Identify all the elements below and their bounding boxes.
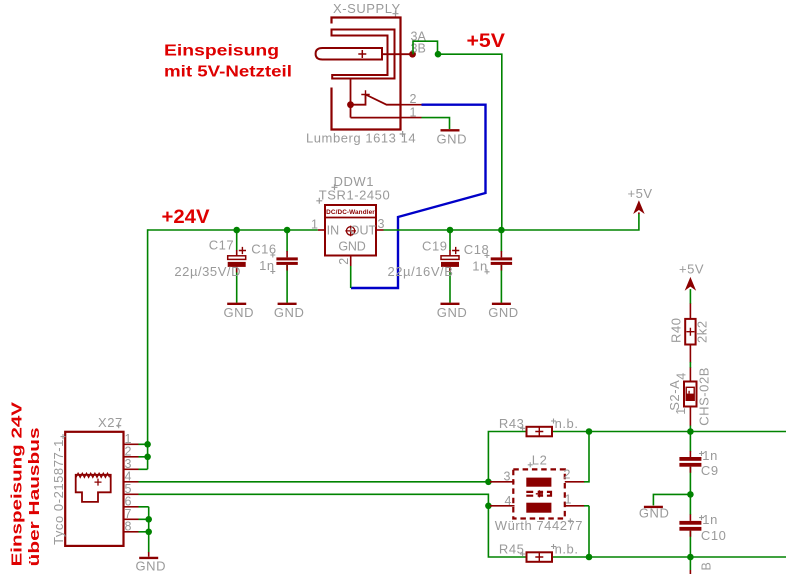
origin cross of C18 — [485, 253, 490, 258]
wire junction down to R45 — [488, 506, 526, 557]
svg-text:+5V: +5V — [628, 186, 653, 201]
svg-text:DC/DC-Wandler: DC/DC-Wandler — [326, 209, 375, 216]
wire GND from jack pin 1 — [422, 118, 450, 129]
svg-text:C19: C19 — [422, 239, 448, 254]
capacitor C10 pin stubs — [689, 514, 691, 536]
X27 pin 4 stub — [124, 481, 139, 483]
wire +24V rail vertical down to X27 — [147, 229, 149, 469]
resistor R40 body — [685, 319, 695, 345]
origin cross of C16 — [270, 253, 275, 258]
svg-text:GND: GND — [338, 240, 365, 254]
svg-text:2: 2 — [564, 468, 571, 482]
switch pivot cross — [361, 90, 369, 98]
capacitor C19 top plate (hollow) — [441, 256, 459, 260]
ground stem under X27 — [148, 552, 150, 557]
wire from converter pin 2 down (green part) — [350, 266, 352, 288]
svg-text:OUT: OUT — [350, 224, 377, 238]
inductor L2 dashed body — [513, 469, 565, 518]
X27 pin 2 stub — [124, 456, 139, 458]
inductor L2 pin 3 stub — [490, 481, 515, 483]
svg-text:Einspeisung: Einspeisung — [164, 41, 279, 59]
junction dot between C9 and C10 — [687, 491, 694, 498]
switch pivot dot — [347, 101, 354, 108]
capacitor C17 top plate (hollow) — [228, 256, 246, 260]
svg-text:Lumberg 1613 14: Lumberg 1613 14 — [306, 131, 416, 146]
wire +5V to R40 — [689, 289, 691, 304]
X27 pin 6 stub — [124, 506, 139, 508]
resistor R43 body — [527, 427, 553, 437]
svg-text:C9: C9 — [701, 463, 719, 478]
wire R40 to S2 — [689, 362, 691, 368]
junction dot at L2 pin1 column — [586, 554, 593, 561]
capacitor C18 pin stubs — [500, 251, 502, 271]
origin cross of X27 label — [116, 423, 121, 428]
origin cross inside RJ45 glyph — [95, 479, 102, 486]
origin cross inside R45 — [535, 553, 543, 561]
svg-text:+5V: +5V — [467, 31, 506, 52]
junction dot at S2 column — [687, 428, 694, 435]
wire to ground between C9 and C10 — [653, 494, 690, 505]
junction dot at L2 pin 4 — [485, 503, 492, 510]
capacitor C9 plates — [679, 457, 701, 467]
capacitor C9 wires — [689, 432, 691, 495]
converter origin circle-cross marker — [345, 226, 356, 237]
resistor R40 pin stubs — [689, 304, 691, 363]
ground symbol under C18 — [492, 303, 511, 305]
origin cross of X-SUPPLY label — [393, 11, 399, 17]
svg-text:n.b.: n.b. — [555, 416, 579, 431]
switch S2-A body — [684, 382, 697, 407]
junction dot X27 pin 2 — [144, 454, 151, 461]
svg-text:S2-A: S2-A — [667, 380, 682, 411]
svg-text:22µ/35V/D: 22µ/35V/D — [174, 264, 241, 279]
X27 pin 1 stub — [124, 443, 139, 445]
svg-text:C17: C17 — [209, 238, 235, 253]
wire shorting pins 3A and 3B — [413, 41, 438, 54]
wire +24V rail horizontal — [148, 229, 318, 231]
converter pin 2 stub (bottom) — [350, 256, 352, 267]
origin cross of L2 symbol — [536, 490, 543, 497]
junction dot (green) on +5V net — [435, 51, 442, 58]
switch S2-A actuator notch — [688, 391, 690, 394]
switch blade — [366, 95, 401, 105]
wire junction up to R43 — [488, 432, 526, 483]
resistor R45 body — [527, 552, 553, 562]
origin cross of R43 label — [520, 426, 525, 431]
junction dot X27 pin 8 — [145, 529, 152, 536]
capacitor C16 wires — [286, 230, 288, 303]
svg-text:4: 4 — [505, 494, 512, 508]
capacitor C16 plates — [276, 257, 297, 265]
svg-text:GND: GND — [136, 559, 167, 574]
svg-text:1n: 1n — [472, 258, 488, 273]
switch arm vertical inside jack — [350, 79, 352, 118]
converter header separator line — [325, 217, 376, 219]
wire OUT net of converter to +5V arrow — [384, 214, 639, 231]
inductor L2 pin 1 stub — [565, 505, 585, 507]
svg-text:3: 3 — [378, 217, 385, 231]
svg-text:4: 4 — [675, 373, 689, 380]
wire L2 pin 1 to R45 net — [584, 506, 589, 557]
svg-text:über Hausbus: über Hausbus — [26, 427, 43, 566]
capacitor C17 wire from rail — [236, 230, 238, 303]
pin 1 inner line of jack — [351, 117, 401, 119]
origin cross of C18 value — [485, 269, 490, 274]
pin line from barrel to node — [382, 53, 412, 55]
svg-text:2: 2 — [410, 92, 417, 106]
converter pin 3 stub — [376, 229, 384, 231]
RJ45 jack glyph inside X27 — [76, 475, 111, 502]
switch S2-A actuator outline — [686, 387, 694, 400]
capacitor C19 wires — [449, 230, 451, 303]
inductor L2 pin 2 stub — [565, 481, 585, 483]
svg-text:GND: GND — [224, 305, 255, 320]
origin cross of C9 value — [699, 451, 704, 456]
junction dot X27 pin 1 — [144, 441, 151, 448]
svg-text:1n: 1n — [702, 448, 718, 463]
polarity plus of C17 — [239, 247, 246, 254]
ground symbol under X27 — [139, 557, 158, 559]
inductor L2 core dashes — [526, 491, 551, 497]
pin tip below bottom net — [689, 570, 691, 574]
pin 2 stub of jack — [401, 104, 422, 106]
origin cross inside R40 — [686, 328, 694, 336]
svg-text:3: 3 — [504, 470, 511, 484]
origin cross of Tyco label — [61, 434, 66, 439]
svg-text:B: B — [700, 562, 714, 570]
X27 pin 5 stub — [124, 493, 139, 495]
origin cross of Lumberg value label — [400, 131, 406, 137]
switch S2-A actuator filled half — [686, 394, 694, 401]
svg-text:22µ/16V/B: 22µ/16V/B — [388, 264, 454, 279]
origin cross of R45 label — [520, 552, 525, 557]
junction dot C18 tap — [498, 227, 505, 234]
wire net from R45 to right edge — [552, 556, 786, 558]
svg-text:GND: GND — [639, 506, 670, 521]
svg-text:+24V: +24V — [162, 207, 210, 228]
origin cross of L2 label — [528, 462, 533, 467]
wire from X27 pin 5 jog down to L2 pin 4 — [139, 494, 489, 506]
blue wire from jack pin 2 to DC/DC pin 2 — [351, 105, 486, 288]
svg-text:GND: GND — [437, 132, 468, 147]
svg-text:1: 1 — [565, 493, 572, 507]
svg-text:GND: GND — [488, 305, 519, 320]
capacitor C19 bottom plate (filled) — [441, 262, 459, 267]
svg-text:Einspeisung 24V: Einspeisung 24V — [8, 402, 25, 566]
svg-text:X-SUPPLY: X-SUPPLY — [333, 1, 401, 16]
junction dot C19 tap — [447, 227, 454, 234]
wire stub below bottom net — [689, 557, 691, 570]
ground symbol between C9 and C10 — [644, 506, 663, 508]
capacitor C9 pin stubs — [689, 451, 691, 473]
capacitor C19 pin stubs — [449, 250, 451, 273]
plus mark inside barrel — [358, 50, 366, 58]
capacitor C16 pin stubs — [286, 251, 288, 271]
svg-text:8: 8 — [125, 519, 132, 533]
switch S2-A pin stubs — [689, 368, 691, 426]
svg-text:C18: C18 — [464, 242, 490, 257]
svg-text:2k2: 2k2 — [695, 320, 710, 343]
wire net from R43 to right edge — [552, 431, 786, 433]
wire from X27 pin 4 to L2 pin 3 junction — [139, 481, 489, 483]
svg-text:GND: GND — [274, 305, 305, 320]
origin cross of R43 value — [551, 419, 556, 424]
connector X1 center pin barrel — [316, 48, 382, 60]
converter U1 body box — [325, 205, 376, 256]
svg-text:R40: R40 — [669, 318, 684, 344]
supply symbol +5V arrow (right of converter) — [634, 202, 643, 215]
connector X1 sleeve contact (folded strip) — [332, 30, 395, 79]
connector X1 outer body (Lumberg power jack) — [332, 18, 401, 130]
switch pivot link — [351, 95, 366, 105]
wire X27 pins 6-8 to ground — [139, 507, 149, 553]
wire L2 pin 2 to R43 net — [584, 432, 589, 483]
ground symbol under C16 — [278, 303, 297, 305]
X27 pin 7 stub — [124, 518, 139, 520]
inductor L2 pin 4 stub — [490, 505, 515, 507]
capacitor C10 plates — [679, 521, 701, 531]
origin cross of C10 value — [699, 515, 704, 520]
origin cross of DDW1 label — [332, 184, 338, 190]
origin cross of C16 value — [270, 269, 275, 274]
svg-text:1: 1 — [410, 106, 417, 120]
capacitor C18 wires — [500, 230, 502, 303]
junction dot at L2 pin 3 — [485, 479, 492, 486]
label Einspeisung mit 5V-Netzteil — [164, 41, 292, 80]
ground symbol under C19 — [441, 303, 460, 305]
junction dot C17 tap — [233, 227, 240, 234]
capacitor C17 bottom plate (filled) — [228, 262, 246, 267]
svg-text:2: 2 — [337, 258, 351, 265]
polarity plus of C19 — [452, 247, 459, 254]
origin cross of L2 value label — [568, 518, 573, 523]
junction dot (maroon) at jack output — [409, 51, 416, 58]
svg-text:L2: L2 — [532, 453, 548, 468]
junction dot at C10 column — [687, 554, 694, 561]
wire S2 to horizontal net — [689, 426, 691, 432]
wire +5V net from jack to the right and down — [438, 54, 502, 230]
junction dot at L2 pin2 column — [586, 428, 593, 435]
inductor L2 top winding — [526, 478, 551, 487]
origin cross of R45 value — [551, 544, 556, 549]
svg-text:IN: IN — [327, 224, 340, 238]
connector X27 body box — [65, 432, 123, 546]
origin cross of TSR1-2450 label — [316, 198, 322, 204]
svg-text:Tyco 0-215877-1: Tyco 0-215877-1 — [51, 439, 66, 545]
svg-text:GND: GND — [437, 305, 468, 320]
svg-text:TSR1-2450: TSR1-2450 — [319, 188, 390, 203]
svg-text:C10: C10 — [701, 528, 727, 543]
svg-text:CHS-02B: CHS-02B — [697, 367, 712, 426]
svg-text:1n: 1n — [702, 512, 718, 527]
label Einspeisung 24V ueber Hausbus (rotated) — [8, 402, 42, 566]
origin cross inside R43 — [535, 428, 543, 436]
svg-text:n.b.: n.b. — [555, 542, 579, 557]
capacitor C17 pin stubs — [236, 250, 238, 273]
ground symbol near jack — [441, 129, 460, 131]
supply symbol +5V arrow (top of R40 column) — [686, 278, 695, 289]
junction dot C16 tap — [284, 227, 291, 234]
ground symbol under C17 — [227, 303, 246, 305]
wire X27 pins 1-3 to +24V rail — [139, 444, 148, 469]
junction dot X27 pin 7 — [145, 516, 152, 523]
X27 pin 3 stub — [124, 468, 139, 470]
svg-text:mit 5V-Netzteil: mit 5V-Netzteil — [164, 62, 292, 80]
pin 1 stub of jack — [401, 117, 422, 119]
converter pin 1 stub — [318, 229, 325, 231]
RJ45 contact teeth zigzag — [76, 473, 110, 477]
X27 pin 8 stub — [124, 531, 139, 533]
inductor L2 bottom winding — [526, 503, 551, 513]
capacitor C10 wires — [689, 494, 691, 557]
capacitor C18 plates — [491, 257, 512, 265]
svg-text:+5V: +5V — [679, 262, 704, 277]
